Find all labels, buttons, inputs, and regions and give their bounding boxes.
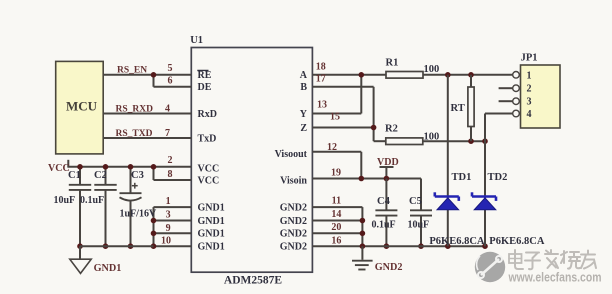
wire: branch down to DE: [153, 75, 155, 87]
pin number 10 (left): [161, 235, 171, 246]
wire GND2 vertical bus: [361, 207, 363, 246]
svg-text:9: 9: [166, 223, 171, 234]
svg-text:2: 2: [168, 155, 173, 166]
label TD1: [452, 172, 472, 183]
svg-text:11: 11: [332, 196, 341, 207]
node junction TD1 bottom: [445, 243, 451, 249]
watermark url www.elecfans.com: [508, 271, 602, 285]
node junction VCC/pin8: [151, 164, 157, 170]
svg-text:Y: Y: [300, 109, 308, 120]
svg-text:Visoin: Visoin: [280, 175, 307, 186]
wire U1 pin 14 GND2: [312, 220, 362, 222]
pin name GND1 (row 3): [198, 229, 225, 240]
wire GND1 rail: [80, 245, 154, 247]
net label VCC: [48, 163, 70, 174]
svg-text:U1: U1: [190, 35, 203, 46]
node C5 bottom: [418, 243, 424, 249]
wire TD1 branch (A to GND2): [447, 75, 449, 246]
svg-text:TxD: TxD: [198, 133, 217, 144]
pin name DE (pin6): [198, 82, 212, 93]
svg-text:10: 10: [161, 235, 171, 246]
svg-text:P6KE6.8CA: P6KE6.8CA: [429, 236, 485, 247]
value 0.1uF (C4): [372, 220, 396, 231]
wire: R1 to JP1 pin 1: [423, 74, 513, 76]
svg-text:8: 8: [168, 169, 173, 180]
svg-text:RS_RXD: RS_RXD: [116, 104, 154, 114]
wire Visoin rail: U1 pin 19 to C5: [312, 178, 421, 180]
wire GND1 vertical bus: [153, 207, 155, 246]
ground GND2 symbol: [352, 246, 373, 269]
net label RS_RXD: [116, 104, 154, 114]
svg-text:VCC: VCC: [48, 163, 70, 174]
pin name RE (pin5) with overline: [197, 70, 211, 81]
node junction GND2 bus/rail: [360, 243, 366, 249]
resistor R1 100: [386, 58, 440, 79]
net label GND2: [375, 262, 403, 273]
pin name GND2 (row 1): [280, 202, 307, 213]
svg-text:C5: C5: [409, 196, 422, 207]
pin number 15 (right): [330, 112, 340, 123]
watermark logo circle: [475, 252, 505, 282]
pin name GND1 (row 1): [198, 202, 225, 213]
value 1uF/16V (C3): [120, 208, 157, 219]
svg-text:GND1: GND1: [198, 202, 225, 213]
wire A: U1 pin 18 to R1: [312, 74, 386, 76]
svg-text:GND2: GND2: [280, 202, 307, 213]
svg-text:GND2: GND2: [375, 262, 403, 273]
pin number 19 (right): [331, 168, 341, 179]
wire: to U1 pin 8: [154, 179, 192, 181]
net label GND1: [94, 263, 122, 274]
pin number 2 (left): [168, 155, 173, 166]
svg-text:C3: C3: [131, 170, 144, 181]
label TD2: [488, 172, 508, 183]
node junction TD1 top: [445, 72, 451, 78]
svg-text:19: 19: [331, 168, 341, 179]
svg-text:VCC: VCC: [198, 164, 220, 175]
wire: R2 to TD2 branch: [423, 140, 485, 142]
pin number 3 (left): [166, 209, 171, 220]
svg-text:10uF: 10uF: [408, 220, 430, 231]
pin number 9 (left): [166, 223, 171, 234]
svg-text:RxD: RxD: [198, 109, 217, 120]
svg-text:C1: C1: [68, 170, 81, 181]
pin name GND1 (row 2): [198, 216, 225, 227]
wire: Visoout drop to Visoin: [360, 152, 362, 179]
transient diode TD2 P6KE6.8CA: [472, 192, 496, 210]
wire VCC rail to U1 pin 2: [67, 166, 191, 168]
svg-text:15: 15: [330, 112, 340, 123]
node C2 top: [103, 164, 109, 170]
pin number 14 (right): [331, 209, 341, 220]
pin name Y: [300, 109, 308, 120]
wire: branch down to pin 8: [153, 167, 155, 180]
pin name RxD (pin4): [198, 109, 217, 120]
wire Visoout: U1 pin 12: [312, 151, 361, 153]
node junction RT bottom: [468, 138, 474, 144]
pin number 4 (left): [165, 103, 170, 114]
node junction B/Z: [371, 125, 377, 131]
resistor R2 100: [374, 140, 386, 142]
svg-text:R2: R2: [385, 124, 398, 135]
pin number 20 (right): [331, 222, 341, 233]
wire Z: U1 pin 15: [312, 127, 373, 129]
pin number 6 (left): [168, 75, 173, 86]
pin name Visoout: [275, 149, 308, 160]
node C3 bottom: [128, 243, 134, 249]
wire GND2 rail: U1 pin 16 to TD2: [312, 245, 485, 247]
net label VDD: [377, 157, 399, 168]
value 10uF (C5): [408, 220, 430, 231]
pin number 8 (left): [168, 169, 173, 180]
pin name GND2 (row 4): [280, 242, 307, 253]
pin number 1 (left): [166, 196, 171, 207]
svg-text:16: 16: [331, 235, 341, 246]
net label RS_TXD: [116, 129, 153, 139]
net label RS_EN: [117, 66, 147, 76]
svg-text:GND2: GND2: [280, 216, 307, 227]
svg-text:10uF: 10uF: [54, 195, 76, 206]
svg-text:18: 18: [316, 62, 326, 73]
pin number 7 (left): [165, 128, 170, 139]
pin name GND2 (row 2): [280, 216, 307, 227]
pin name VCC (pin2): [198, 164, 220, 175]
node C4 bottom: [384, 243, 390, 249]
label C2: [94, 170, 107, 181]
capacitor C1 10uF: [69, 167, 91, 246]
pin name GND2 (row 3): [280, 229, 307, 240]
svg-text:12: 12: [327, 142, 337, 153]
wire U1 pin 3 GND1: [154, 220, 192, 222]
node C1 top: [77, 164, 83, 170]
resistor RT termination: [451, 75, 475, 141]
JP1 pin 3 stub and circle: [499, 98, 521, 105]
svg-text:MCU: MCU: [66, 99, 98, 114]
svg-text:RS_TXD: RS_TXD: [116, 129, 153, 139]
svg-text:0.1uF: 0.1uF: [372, 220, 396, 231]
svg-text:3: 3: [527, 97, 532, 108]
svg-text:ADM2587E: ADM2587E: [224, 275, 282, 287]
pin name VCC (pin8): [198, 175, 220, 186]
pin name A: [300, 70, 308, 81]
svg-text:1: 1: [527, 70, 532, 81]
pin name Z: [300, 123, 307, 134]
svg-text:Z: Z: [300, 123, 307, 134]
label C5: [409, 196, 422, 207]
pin number 5 (left): [168, 63, 173, 74]
node junction R2/TD2/JP1-4: [482, 138, 488, 144]
op IC U1 ADM2587E body: [190, 35, 312, 287]
power VCC symbol: [67, 160, 69, 167]
svg-text:14: 14: [331, 209, 341, 220]
node junction VDD/C4: [384, 176, 390, 182]
svg-text:R1: R1: [386, 58, 399, 69]
svg-text:4: 4: [165, 103, 170, 114]
wire Y: U1 pin 13: [312, 113, 361, 115]
svg-text:P6KE6.8CA: P6KE6.8CA: [489, 236, 545, 247]
pin name B: [300, 82, 307, 93]
wire RS_TXD: MCU to U1 pin 7: [103, 137, 191, 139]
svg-text:100: 100: [424, 64, 440, 75]
svg-text:1: 1: [166, 196, 171, 207]
svg-text:VCC: VCC: [198, 175, 220, 186]
svg-text:0.1uF: 0.1uF: [80, 195, 104, 206]
svg-text:C4: C4: [377, 196, 391, 207]
capacitor C3 1uF/16V electrolytic: [120, 167, 142, 246]
svg-text:GND1: GND1: [198, 229, 225, 240]
wire U1 pin 20 GND2: [312, 232, 362, 234]
svg-text:13: 13: [317, 100, 327, 111]
svg-text:www.elecfans.com: www.elecfans.com: [508, 271, 602, 285]
wire B: U1 pin 17: [312, 86, 373, 88]
svg-text:GND1: GND1: [198, 216, 225, 227]
wire: to U1 pin 6 (DE): [154, 86, 192, 88]
value P6KE6.8CA (TD2): [489, 236, 545, 247]
node junctions on GND2 bus: [360, 218, 366, 224]
wire U1 pin 1 GND1: [154, 206, 192, 208]
watermark text dianzifashaoyou: [509, 250, 596, 269]
power VDD symbol: [380, 167, 394, 179]
svg-text:Visoout: Visoout: [275, 149, 308, 160]
svg-text:20: 20: [331, 222, 341, 233]
svg-text:C2: C2: [94, 170, 107, 181]
pin number 18 (right): [316, 62, 326, 73]
capacitor C4 0.1uF: [375, 179, 397, 247]
node junction RS_EN/DE: [151, 72, 157, 78]
label C1: [68, 170, 81, 181]
svg-text:7: 7: [165, 128, 170, 139]
pin name Visoin: [280, 175, 307, 186]
wire RS_EN: MCU to U1 pin 5: [103, 74, 191, 76]
svg-text:TD2: TD2: [488, 172, 508, 183]
connector JP1: [521, 53, 561, 129]
svg-text:B: B: [300, 82, 307, 93]
node C1 bottom: [77, 243, 83, 249]
svg-text:2: 2: [527, 84, 532, 95]
svg-text:GND1: GND1: [94, 263, 122, 274]
pin name GND1 (row 4): [198, 242, 225, 253]
svg-text:6: 6: [168, 75, 173, 86]
svg-text:1uF/16V: 1uF/16V: [120, 208, 157, 219]
value P6KE6.8CA (TD1): [429, 236, 485, 247]
value 0.1uF (C2): [80, 195, 104, 206]
capacitor C5 10uF: [410, 179, 432, 247]
wire: B drop to Z/R2: [373, 87, 375, 141]
node junction Visoout/Visoin: [359, 176, 365, 182]
svg-text:DE: DE: [198, 82, 212, 93]
label C4: [377, 196, 391, 207]
pin name TxD (pin7): [198, 133, 217, 144]
ground GND1 symbol: [70, 246, 91, 273]
pin number 12 (right): [327, 142, 337, 153]
pin number 17 (right): [316, 73, 326, 84]
svg-text:5: 5: [168, 63, 173, 74]
wire: Y riser to A: [360, 75, 362, 114]
svg-text:JP1: JP1: [521, 53, 538, 64]
svg-text:TD1: TD1: [452, 172, 472, 183]
node C2 bottom: [103, 243, 109, 249]
JP1 pin 2 stub and circle: [499, 85, 521, 92]
svg-text:4: 4: [527, 109, 532, 120]
node C3 top: [128, 164, 134, 170]
MCU block: [56, 61, 103, 153]
wire U1 pin 9 GND1: [154, 232, 192, 234]
svg-text:A: A: [300, 70, 308, 81]
pin number 16 (right): [331, 235, 341, 246]
svg-text:GND1: GND1: [198, 242, 225, 253]
JP1 pin 4 wire and circle: [485, 110, 521, 117]
JP1 pin 1 circle: [513, 72, 521, 79]
label C3: [131, 170, 144, 181]
svg-text:GND2: GND2: [280, 242, 307, 253]
svg-text:17: 17: [316, 73, 326, 84]
node junction TD2 bottom: [482, 243, 488, 249]
capacitor C2 0.1uF: [94, 167, 116, 246]
node junctions on GND1 bus: [151, 218, 157, 224]
svg-text:RS_EN: RS_EN: [117, 66, 147, 76]
wire RS_RXD: MCU to U1 pin 4: [103, 113, 191, 115]
pin number 11 (right): [332, 196, 341, 207]
wire TD2 branch (JP1 pin4 / R2 to GND2): [484, 114, 486, 247]
transient diode TD1 P6KE6.8CA: [435, 192, 459, 210]
svg-text:RE: RE: [198, 70, 212, 81]
wire U1 pin 10 GND1: [154, 245, 192, 247]
svg-text:GND2: GND2: [280, 229, 307, 240]
svg-text:3: 3: [166, 209, 171, 220]
value 10uF (C1): [54, 195, 76, 206]
node junction RT top: [468, 72, 474, 78]
wire U1 pin 11 GND2: [312, 206, 362, 208]
node junction A/Y: [359, 72, 365, 78]
svg-text:VDD: VDD: [377, 157, 399, 168]
svg-text:RT: RT: [451, 103, 465, 114]
pin number 13 (right): [317, 100, 327, 111]
